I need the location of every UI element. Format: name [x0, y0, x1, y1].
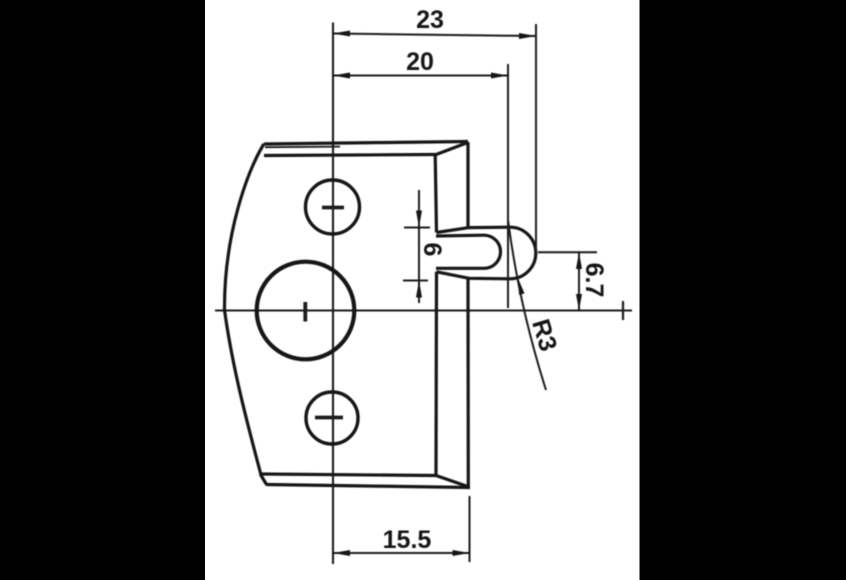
svg-text:15.5: 15.5: [383, 526, 432, 554]
svg-text:6.7: 6.7: [580, 263, 608, 298]
svg-text:23: 23: [416, 6, 444, 34]
svg-text:6: 6: [418, 243, 446, 257]
svg-text:20: 20: [406, 48, 434, 76]
